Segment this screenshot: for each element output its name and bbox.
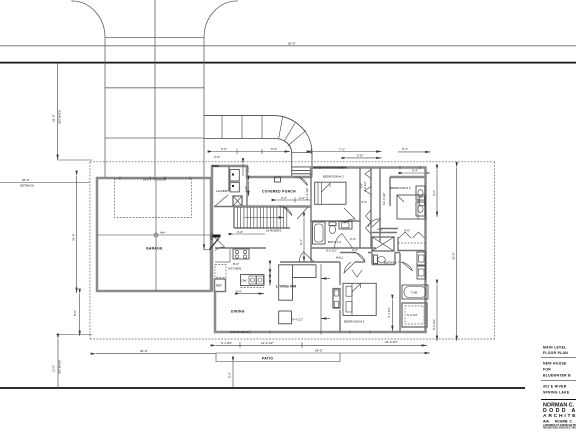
window bed2 top [313,167,347,169]
BEDROOM 1 [299,252,376,332]
KITCHEN [210,232,271,293]
svg-text:ARCHITE: ARCHITE [543,413,576,419]
porch left dim [248,181,250,196]
walk end joint [292,152,312,154]
svg-text:8'-0": 8'-0" [73,310,77,316]
step sidewall left [291,153,293,177]
svg-text:34'-0": 34'-0" [140,349,148,353]
svg-text:AIA NCARB C: AIA NCARB C [543,419,572,423]
svg-text:DINING: DINING [231,310,245,314]
island [241,275,265,286]
svg-text:9'-4": 9'-4" [402,147,408,151]
dim 8'-0" [79,294,81,336]
dim 25'-0" setback left [0,182,90,184]
bedroom3 door arc [368,219,381,227]
sink 2 vanity [339,222,352,230]
dim front setback vertical [57,63,59,160]
svg-text:LAUNDRY: LAUNDRY [216,189,229,193]
STREETS [0,0,576,250]
svg-text:5'-0": 5'-0" [360,183,364,188]
svg-text:6'-0": 6'-0" [236,290,242,294]
dim bed1 rotated [391,300,393,331]
laundry closet box [233,196,242,206]
counter edge [229,249,231,262]
dryer box [230,182,239,192]
svg-text:BEDROOM # 1: BEDROOM # 1 [344,320,365,324]
garage walls [97,178,211,291]
walk joint 2 [241,116,243,139]
dim right 8'-2 1/2" [436,285,438,341]
hall entry door arc [279,206,292,215]
svg-text:3'-0": 3'-0" [244,186,248,192]
svg-text:5'-6 1/2": 5'-6 1/2" [407,313,418,317]
street edge thick property line [0,62,576,64]
dim bottom row [216,344,427,346]
bed 3 [397,195,426,219]
svg-text:DODD A: DODD A [543,408,576,414]
hall lower wall [280,261,340,263]
svg-text:SPRING LAKE: SPRING LAKE [543,391,570,395]
BATH 1 toilet room [340,252,400,277]
setback top [90,161,495,163]
svg-text:7'-2": 7'-2" [339,148,345,152]
svg-text:12'-0 1/2": 12'-0 1/2" [261,341,274,345]
svg-text:4'-6": 4'-6" [361,200,367,204]
bath1 double door [352,270,362,277]
laundry door diagonal [215,195,228,206]
windows [120,166,420,334]
bedroom3 south wall [380,228,398,230]
bath2 door arc [335,234,353,249]
svg-text:COVERED PORCH: COVERED PORCH [262,190,296,194]
GARAGE interior [97,177,211,291]
svg-text:FLOOR PLAN: FLOOR PLAN [543,351,568,355]
dim rear setback vertical [57,339,59,388]
garage door dashed header [114,179,191,218]
bedroom3 north wall [390,176,426,179]
PATIO [216,353,340,362]
north curb across driveway [105,37,204,39]
master vanity 1 [417,252,426,265]
svg-text:BATH # 1: BATH # 1 [384,261,397,265]
bedroom3 closet doors [399,232,425,238]
DINING [230,310,249,335]
stair bottom rail [234,227,290,229]
stove [233,249,249,259]
bedroom2 west wall [310,173,312,263]
svg-text:SETBACK: SETBACK [58,360,62,374]
svg-text:5'-2": 5'-2" [299,239,303,245]
LIVING ROOM [270,264,330,335]
svg-text:25'-0": 25'-0" [22,178,30,182]
bath1 door arc [352,252,365,261]
svg-text:11'-0": 11'-0" [52,365,56,372]
dim right 4'-2" [436,170,438,217]
svg-text:302 E RIVER: 302 E RIVER [543,385,567,389]
island side dim [269,275,271,286]
living left dim [269,266,271,280]
garage centerline vertical [155,178,157,291]
bedroom1 door arc [299,252,314,262]
laundry corner dim [242,164,244,177]
svg-text:32'-0": 32'-0" [452,252,456,260]
main house outline [212,166,426,332]
living sectional sofa [279,265,316,300]
svg-text:SETBACK: SETBACK [20,183,34,187]
vanity wall [399,253,401,332]
dim walk 5'-0" a [213,151,290,153]
island dim [241,293,265,295]
bedroom2 closet walls [359,168,361,249]
window south wall [249,331,251,334]
window laundry top [212,165,219,167]
dim 34'-0" garage width [96,353,216,355]
fireplace niche [333,289,340,308]
pantry dashed counter [215,265,226,278]
porch width dim [277,199,311,201]
svg-text:FOR: FOR [543,368,551,372]
BEDROOM 2 [311,168,371,263]
dim top 5'-4" [404,172,430,174]
porch chimney [275,177,281,182]
svg-text:25'-0": 25'-0" [52,114,56,122]
bed 1 [343,283,376,315]
svg-text:5'-8": 5'-8" [357,154,363,158]
closet bifold doors [365,170,371,195]
svg-text:8'-0": 8'-0" [233,262,239,266]
walk joint 1 [221,116,223,139]
master bath door arc [398,262,413,271]
dim right 32'-0" [456,168,458,342]
step tread 1 [292,166,312,168]
toilet 1 [374,255,378,264]
svg-text:4'-1 1/2": 4'-1 1/2" [387,307,391,318]
closet bottom wall [398,250,426,252]
svg-text:2'-0": 2'-0" [214,155,220,159]
svg-text:9'-0 1/2": 9'-0 1/2" [326,249,337,253]
TITLE BLOCK [541,346,576,430]
bedroom3 west wall [379,168,381,243]
svg-text:24'-0": 24'-0" [315,349,323,353]
tub 2 [313,222,326,244]
street right-of-way line [0,45,576,47]
stair left wall [233,207,235,229]
driveway centerline [154,0,156,177]
garage east wall [211,178,214,292]
driveway right edge [203,38,205,178]
svg-text:5'-4": 5'-4" [412,168,418,172]
step tread 3 [292,173,312,175]
svg-text:HALL: HALL [336,256,344,260]
kitchen top wall [215,247,266,249]
svg-text:4'-0": 4'-0" [377,228,383,232]
window bed3 top [399,166,401,169]
shower [402,303,427,327]
bedroom1 hall door arc [344,262,355,273]
svg-text:4'-0": 4'-0" [404,229,410,233]
washer box [230,169,239,181]
svg-text:PATIO: PATIO [262,357,273,361]
svg-text:16'0 X 7'0 DOOR: 16'0 X 7'0 DOOR [143,177,167,181]
bath3 vanity upper [416,186,425,200]
step tread 2 [292,170,312,172]
svg-text:4'-2": 4'-2" [432,190,436,196]
closet shelf dashed [398,242,426,244]
hall vertical dim [303,218,305,262]
setback left [89,162,91,339]
walk radial joint 3 [288,130,306,146]
dim top 9'-4" [398,151,431,153]
LAUNDRY [214,167,247,207]
svg-text:NEW HOUSE: NEW HOUSE [543,362,567,366]
ottoman [279,311,292,324]
dim 24'-0" [216,352,430,354]
hall door arc [215,238,225,251]
garage center post [154,233,158,237]
svg-text:SETBACK: SETBACK [58,110,62,124]
bedroom2 door arc [344,208,355,223]
HALL [280,233,397,263]
svg-text:DW: DW [242,279,247,283]
refrigerator [215,279,226,292]
linen top wall [372,232,397,234]
garage centerline horizontal [97,234,211,236]
linen closet [372,237,394,251]
island counter dashed [241,287,265,289]
STAIRS [234,207,308,263]
garage entry door [210,238,220,250]
sidewalk crossing upper [105,87,204,89]
svg-text:8'-2 1/2": 8'-2 1/2" [432,319,436,330]
svg-text:2'-0": 2'-0" [299,196,305,200]
master tub [402,285,428,299]
step sidewall right [311,153,313,177]
stair treads [237,207,286,228]
svg-text:WOOD DECK: WOOD DECK [230,330,249,334]
walk inner edge [204,139,292,153]
hall south wall [311,247,376,249]
dim top 7'-2" [312,151,382,153]
svg-text:3'-0": 3'-0" [352,248,358,252]
svg-text:BEDROOM # 2: BEDROOM # 2 [323,175,344,179]
svg-text:16 RISERS: 16 RISERS [266,229,281,233]
stair up arrow [244,217,284,219]
porch bottom wall [234,205,311,208]
bedroom1 west wall [339,262,341,285]
porch entry door arc [295,177,308,186]
svg-text:2'-6": 2'-6" [350,237,356,241]
svg-text:MAIN LEVEL: MAIN LEVEL [543,346,567,350]
svg-text:REF: REF [216,284,222,288]
svg-text:KITCHEN: KITCHEN [228,267,241,271]
svg-text:34'-0": 34'-0" [72,233,76,241]
svg-text:92'-0": 92'-0" [288,41,296,45]
BATH 2 [311,222,376,253]
walk outer edge [204,116,312,153]
svg-text:1'-2": 1'-2" [246,166,250,172]
SETBACK dashed envelope [90,162,495,339]
closet side wall [397,237,399,251]
patio outline [216,353,340,362]
bath2 divider wall [311,220,360,222]
svg-text:23'-9 3/4": 23'-9 3/4" [385,340,398,344]
dim top 5'-8" [347,157,382,159]
laundry bottom wall [214,206,247,208]
curb return left [72,0,105,38]
master vanity 2 [417,266,426,279]
dim 34'-0" garage depth [76,176,78,293]
DIMENSIONS site [0,63,457,388]
svg-text:12'-4 1/2": 12'-4 1/2" [382,192,386,205]
dim patio 5'-0" [232,362,234,388]
sidewalk crossing lower [105,137,204,139]
COVERED PORCH [234,164,311,216]
walk joint 3 [261,116,263,139]
walk radial joint 2 [284,123,295,141]
svg-text:BATH # 2: BATH # 2 [328,240,341,244]
svg-text:REGISTERED ARCHITECT MICHIGAN: REGISTERED ARCHITECT MICHIGAN [543,427,576,430]
walk radial joint 1 [279,117,283,139]
understair diagonal wall [297,207,308,219]
svg-text:2'-2": 2'-2" [281,196,287,200]
svg-text:5'-0": 5'-0" [271,147,277,151]
svg-text:A MEMBER OF AMERICAN INST OF A: A MEMBER OF AMERICAN INST OF ARCH [543,424,576,427]
PROPERTY LINE bottom [0,387,525,389]
toilet room walls [340,253,400,265]
MASTER BATH [398,186,428,332]
svg-text:BEDROOM # 3: BEDROOM # 3 [390,186,411,190]
bedroom3 entry wall [389,177,391,206]
living east line [320,264,322,335]
svg-text:9'-4 1/2": 9'-4 1/2" [292,318,303,322]
driveway left edge [104,38,106,178]
window garage top [119,177,121,180]
svg-text:TUB: TUB [411,291,417,295]
svg-text:5'-1 3/4": 5'-1 3/4" [221,341,232,345]
stair dim [234,233,265,235]
svg-text:BLUEWATER B: BLUEWATER B [543,374,571,378]
svg-text:GARAGE: GARAGE [146,247,163,251]
HOUSE EXTERIOR [97,166,426,332]
svg-text:5'-0": 5'-0" [221,147,227,151]
svg-text:11'-6 1/2": 11'-6 1/2" [305,188,309,200]
setback bottom [90,338,495,340]
BEDROOM 3 [368,168,426,252]
porch west wall [246,177,248,207]
CURVED WALK [204,116,312,177]
setback right [494,162,496,339]
bed 2 [315,182,346,204]
svg-text:HALL: HALL [210,232,214,240]
svg-text:5'-0": 5'-0" [228,372,232,378]
toilet 2 [329,222,336,226]
curb return right [204,0,237,38]
svg-text:3'-0": 3'-0" [237,230,243,234]
svg-text:4x4: 4x4 [160,231,165,235]
